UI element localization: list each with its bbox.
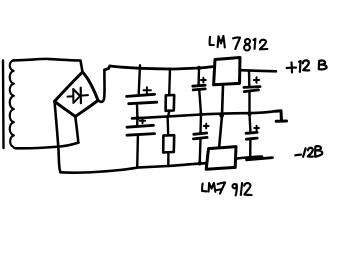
capacitor C3 top plate [193,85,205,86]
wire: +12 output rail [240,70,276,71]
capacitor C4 bottom plate [244,90,258,92]
capacitor C6 wire top [248,114,251,131]
capacitor C5 wire top [199,115,202,133]
capacitor C2 bottom plate [127,134,155,136]
wire: transformer top to bridge [13,59,82,72]
resistor R2 wire top [166,117,169,136]
wire: middle rail [132,111,276,118]
resistor R1 wire top [168,69,171,95]
wire: -12 output overdrawn stroke [247,158,273,160]
diode anode lead [68,95,74,97]
wire: top rail [105,66,214,70]
diode triangle [73,89,80,103]
resistor R2 [163,135,174,152]
capacitor C2 plus [140,118,145,123]
node: middle rail / C3 C5 junction [199,112,203,116]
capacitor C1 bottom plate [129,102,157,104]
capacitor C6 bottom plate [246,138,257,139]
label LM7912 [202,182,252,195]
diode cathode bar [80,88,82,104]
capacitor C5 plus [204,124,209,129]
capacitor C3 wire bottom [199,90,201,114]
wire: bottom rail [61,163,207,173]
capacitor C6 wire bottom [249,140,252,157]
capacitor C3 wire top [197,68,200,85]
capacitor C2 top plate [127,125,154,127]
wire: -12 output [236,157,262,159]
transformer core line [2,61,5,149]
label +12V [287,60,327,72]
label LM7812 [210,36,268,51]
capacitor C1 wire bottom [136,104,139,117]
capacitor C5 bottom plate [193,137,207,139]
regulator U1 LM7812 [214,58,240,85]
diode cathode lead [81,94,88,97]
resistor R2 wire bottom [167,152,169,166]
capacitor C3 plus [201,78,206,83]
transformer winding [10,60,16,148]
wire: bridge + output up to top rail [98,70,105,102]
resistor R1 [166,95,175,111]
regulator U2 LM7912 [206,147,236,170]
node: bottom rail / C5 junction [198,161,202,165]
wire: transformer bottom [16,143,79,149]
capacitor C4 wire top [248,71,251,86]
capacitor C6 top plate [246,131,257,135]
resistor R1 wire bottom [168,111,169,117]
capacitor C4 wire bottom [248,92,250,114]
capacitor C3 bottom plate [193,89,205,90]
ground [276,111,287,122]
capacitor C1 top plate [127,94,155,96]
wire: bridge AC right leg down [75,117,78,143]
capacitor C5 wire bottom [198,139,201,163]
capacitor C4 plus [254,77,259,82]
capacitor C1 wire top [139,65,140,94]
capacitor C5 top plate [194,133,207,134]
capacitor C2 wire bottom [136,136,139,168]
node: middle rail / regulator junction [219,113,224,118]
label -12V [295,146,322,157]
capacitor C2 wire top [136,118,139,126]
bridge rectifier diamond [55,72,99,117]
capacitor C1 plus [144,87,151,93]
capacitor C6 plus [254,126,259,131]
node: middle rail / C1 C2 junction [135,116,140,121]
wire: U1 bottom pin down through middle rail to U2 top [219,85,223,147]
capacitor C4 top plate [244,85,260,89]
node: middle rail / C4 C6 junction [248,112,252,116]
node: top rail / C3 junction [197,66,201,70]
wire: bridge - output left leg down [55,101,61,172]
